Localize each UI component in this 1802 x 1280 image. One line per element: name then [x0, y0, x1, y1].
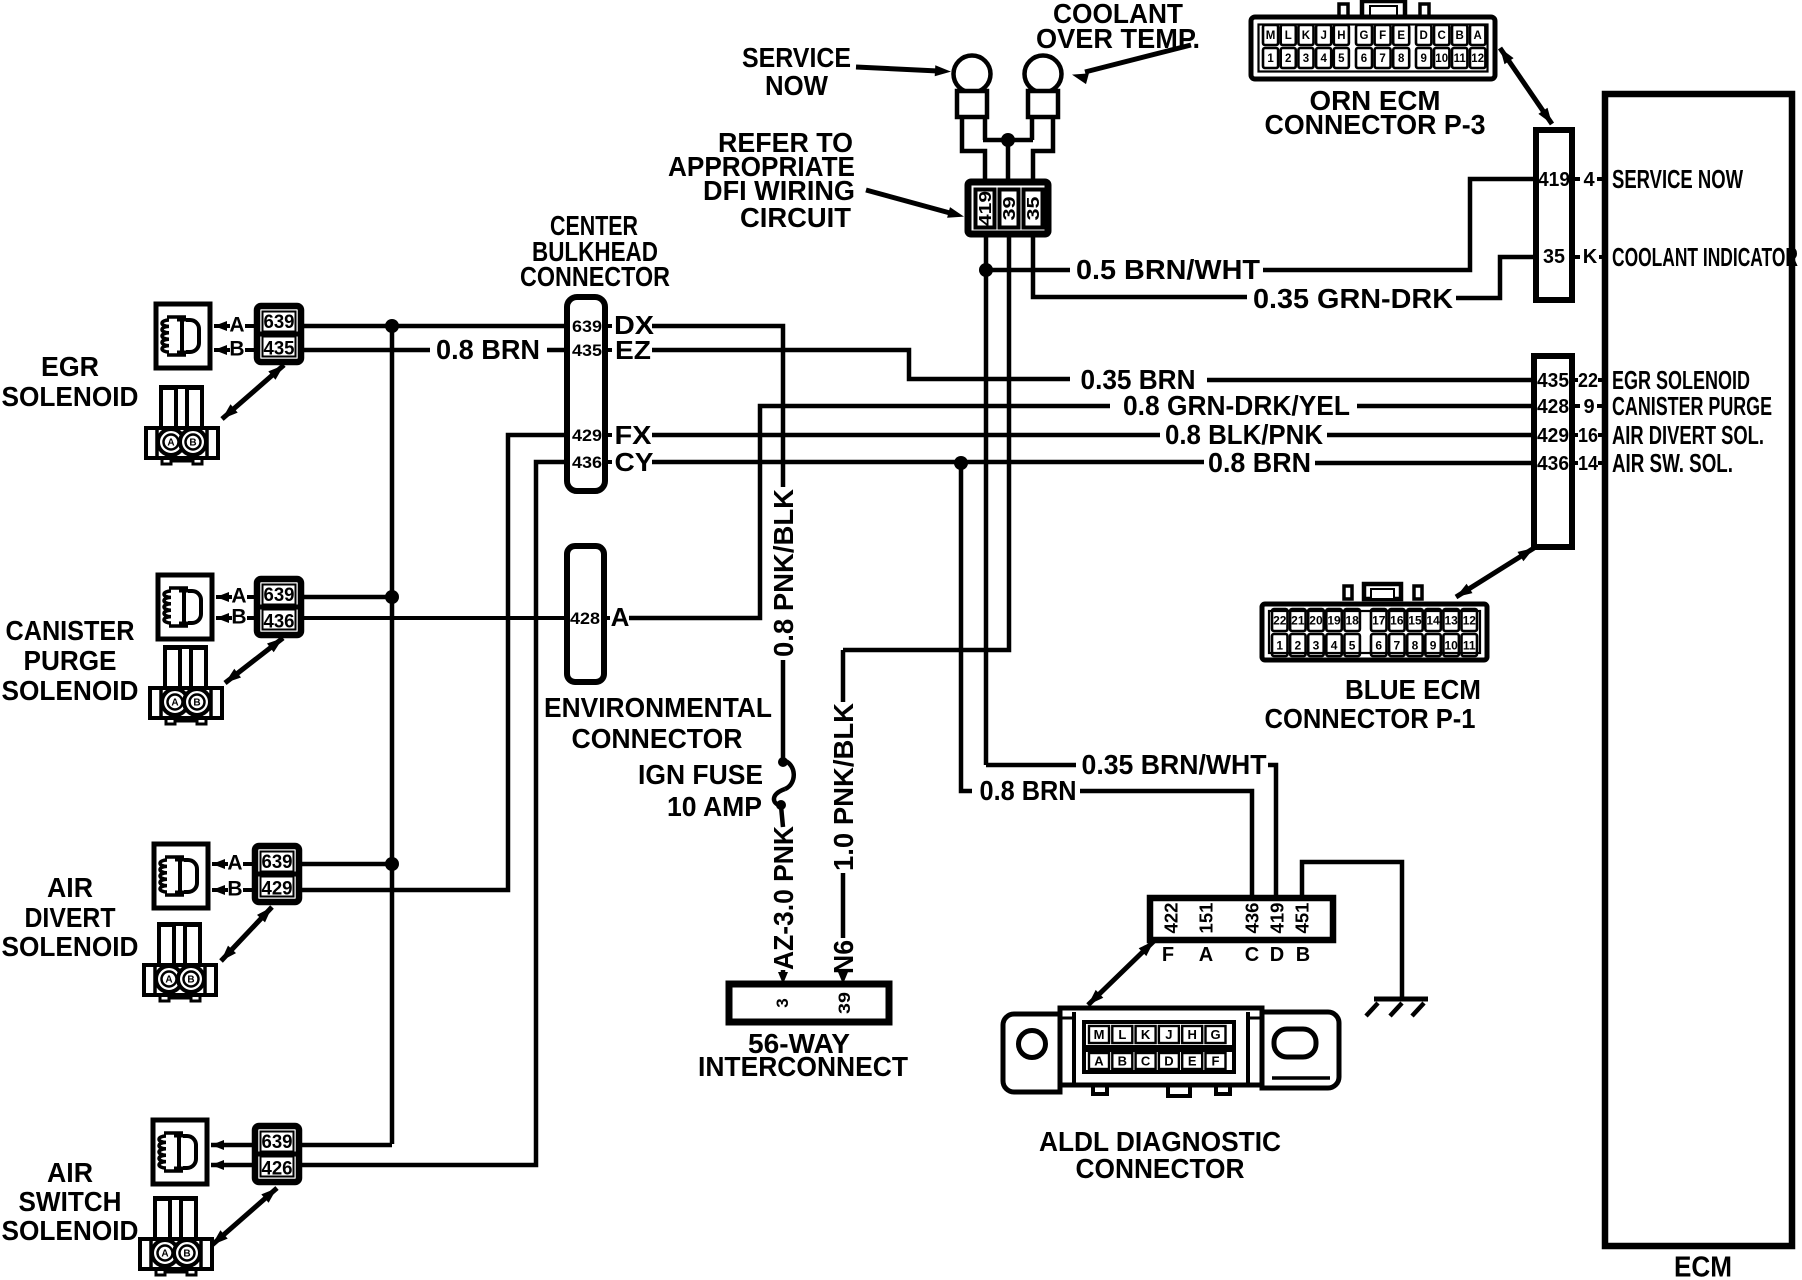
node junction CY to ALDL: [954, 456, 968, 470]
svg-text:B: B: [1296, 944, 1310, 966]
svg-text:21: 21: [1291, 613, 1305, 627]
svg-text:419: 419: [975, 191, 995, 226]
svg-text:1.0 PNK/BLK: 1.0 PNK/BLK: [828, 703, 859, 871]
pin box EGR solenoid circuits 639/435: [257, 306, 301, 362]
label CENTER BULKHEAD CONNECTOR: [520, 210, 670, 292]
svg-text:B: B: [1456, 30, 1464, 42]
arrow P-1 to ECM strip: [1456, 548, 1534, 597]
svg-text:0.35 GRN-DRK: 0.35 GRN-DRK: [1253, 283, 1453, 314]
svg-text:EGR: EGR: [41, 351, 99, 382]
environmental net name A: [604, 616, 610, 620]
svg-text:E: E: [1397, 30, 1405, 42]
ECM connector strip P-3 side: [1536, 130, 1572, 300]
svg-text:IGN FUSE: IGN FUSE: [638, 759, 763, 790]
svg-text:A: A: [161, 1249, 168, 1260]
pin box canister purge solenoid circuits 639/436: [257, 579, 301, 635]
svg-text:17: 17: [1372, 613, 1386, 627]
svg-text:451: 451: [1292, 903, 1312, 934]
svg-text:H: H: [1188, 1027, 1197, 1042]
svg-text:639: 639: [262, 852, 293, 873]
svg-text:F: F: [1212, 1054, 1220, 1069]
svg-text:428: 428: [570, 609, 600, 628]
svg-text:L: L: [1285, 30, 1292, 42]
ECM connector strip P-1 side: [1534, 356, 1572, 547]
terminal arrows canister purge solenoid: [216, 592, 229, 623]
svg-text:1: 1: [1276, 638, 1283, 652]
fuse IGN FUSE 10 AMP symbol: [774, 757, 794, 810]
pin 16 dash and label: [1572, 433, 1578, 437]
connector 56-way interconnect: [729, 984, 889, 1022]
svg-text:5: 5: [1338, 53, 1345, 65]
wire CY junction down to 0.8 BRN ALDL: [961, 463, 972, 791]
svg-text:CONNECTOR P-3: CONNECTOR P-3: [1265, 109, 1486, 140]
svg-text:K: K: [1302, 30, 1311, 42]
solenoid coil EGR solenoid: [156, 304, 210, 368]
svg-text:CONNECTOR: CONNECTOR: [1076, 1153, 1245, 1184]
connector P-3 pin numbers 1-5: [1263, 48, 1278, 68]
pin 4 dash and label: [1572, 177, 1580, 181]
svg-text:SOLENOID: SOLENOID: [2, 675, 139, 706]
svg-text:M: M: [1094, 1027, 1105, 1042]
svg-text:436: 436: [1537, 453, 1569, 475]
connector P-1 pin numbers 17-12: [1371, 609, 1387, 631]
pin box air divert solenoid circuits 639/429: [255, 846, 299, 902]
svg-text:FX: FX: [615, 420, 653, 450]
wire 0.35 BRN/WHT to ALDL pin D: [1268, 765, 1276, 899]
wire coil B to pin box air divert solenoid: [212, 888, 228, 892]
wire 35 from DFI connector to 0.35 GRN-DRK: [1033, 234, 1247, 297]
svg-text:BLUE ECM: BLUE ECM: [1345, 674, 1481, 705]
wire air divert A 639 to bus: [299, 862, 392, 867]
wire coil B to pin box EGR solenoid: [214, 348, 230, 352]
svg-text:H: H: [1337, 30, 1345, 42]
svg-text:2: 2: [1295, 638, 1302, 652]
svg-text:J: J: [1165, 1027, 1172, 1042]
bulkhead net name DX: [605, 324, 612, 328]
connector front view air switch solenoid: [140, 1198, 212, 1275]
svg-text:8: 8: [1412, 638, 1419, 652]
connector front view EGR solenoid: [146, 387, 218, 464]
svg-text:SOLENOID: SOLENOID: [2, 931, 139, 962]
svg-text:9: 9: [1420, 53, 1426, 65]
svg-text:14: 14: [1426, 613, 1440, 627]
connector P-1 pin numbers 6-11: [1371, 634, 1387, 656]
svg-text:4: 4: [1331, 638, 1338, 652]
svg-text:A: A: [1474, 30, 1482, 42]
wire coil A to pin box EGR solenoid: [214, 324, 230, 328]
wire air switch A 639 to bus: [299, 1143, 392, 1148]
pin 9 dash and label: [1572, 404, 1580, 408]
wire air switch B 426 to CY bus: [299, 462, 567, 1165]
wire junction to pin 39: [1006, 140, 1011, 184]
arrow connector callout EGR solenoid: [222, 365, 284, 419]
svg-text:419: 419: [1538, 169, 1570, 191]
ALDL letter row M L K J H G: [1084, 1022, 1234, 1047]
svg-text:39: 39: [999, 196, 1019, 220]
svg-text:436: 436: [1242, 903, 1262, 934]
svg-text:428: 428: [1537, 396, 1569, 418]
svg-text:639: 639: [262, 1132, 293, 1153]
node junction 0.5 BRN/WHT tap: [979, 263, 993, 277]
wire N6 into 56-way pin 39: [841, 974, 846, 976]
wire canister purge A 639 to bus: [301, 595, 392, 600]
wire coil to pin box air switch solenoid: [211, 1143, 255, 1148]
svg-text:CONNECTOR: CONNECTOR: [520, 261, 670, 292]
label ENVIRONMENTAL CONNECTOR: [544, 692, 772, 754]
svg-text:0.8 BRN: 0.8 BRN: [980, 775, 1077, 806]
svg-text:0.8 PNK/BLK: 0.8 PNK/BLK: [768, 489, 799, 657]
label air divert solenoid: [2, 872, 139, 962]
node lamp common junction: [1001, 133, 1015, 147]
connector front view air divert solenoid: [144, 924, 216, 1001]
wire EZ to 0.35 BRN to ECM pin 435: [652, 350, 1534, 380]
svg-text:A: A: [611, 602, 630, 632]
svg-text:L: L: [1118, 1027, 1126, 1042]
wire lamp2 inner terminal: [1030, 117, 1035, 140]
svg-text:C: C: [1141, 1054, 1151, 1069]
label canister purge solenoid: [2, 615, 139, 706]
svg-text:INTERCONNECT: INTERCONNECT: [698, 1051, 908, 1082]
svg-text:14: 14: [1578, 453, 1599, 475]
svg-text:16: 16: [1578, 425, 1598, 447]
arrow COOLANT callout: [1085, 45, 1191, 72]
svg-text:A: A: [231, 585, 246, 608]
svg-text:10: 10: [1444, 638, 1458, 652]
wire 1.0 PNK/BLK middle segment: [841, 873, 846, 938]
connector P-3 pin letters M L K J H: [1263, 25, 1278, 45]
wire lamp1 outer terminal to pin 419: [962, 117, 985, 184]
svg-text:9: 9: [1583, 396, 1594, 418]
svg-text:15: 15: [1408, 613, 1422, 627]
wire coil A to pin box air divert solenoid: [212, 862, 228, 866]
wire 0.8 PNK/BLK below label to fuse: [781, 660, 786, 760]
bulkhead net name FX: [605, 433, 612, 437]
svg-text:12: 12: [1471, 53, 1484, 65]
svg-text:A: A: [1094, 1054, 1104, 1069]
svg-text:CY: CY: [615, 447, 654, 477]
svg-text:DIVERT: DIVERT: [25, 902, 116, 933]
svg-text:AIR SW. SOL.: AIR SW. SOL.: [1612, 448, 1733, 478]
pin box air switch solenoid circuits 639/426: [255, 1126, 299, 1182]
svg-text:19: 19: [1327, 613, 1341, 627]
svg-text:K: K: [1583, 246, 1598, 268]
arrow connector callout air divert solenoid: [221, 907, 272, 961]
svg-text:10 AMP: 10 AMP: [667, 791, 762, 822]
svg-text:ENVIRONMENTAL: ENVIRONMENTAL: [544, 692, 772, 723]
svg-text:6: 6: [1375, 638, 1382, 652]
label IGN FUSE 10 AMP: [638, 759, 763, 822]
svg-text:0.8 BRN: 0.8 BRN: [436, 334, 540, 365]
connector front view canister purge solenoid: [150, 647, 222, 724]
arrow SERVICE NOW callout: [856, 67, 938, 71]
svg-text:435: 435: [264, 339, 295, 360]
svg-text:D: D: [1164, 1054, 1173, 1069]
connector DFI pigtail 419-39-35: [968, 182, 1048, 234]
wire coil B to pin box canister purge solenoid: [216, 616, 232, 620]
pin 14 dash and label: [1572, 461, 1578, 465]
svg-text:ECM: ECM: [1674, 1251, 1732, 1280]
svg-text:AIR DIVERT SOL.: AIR DIVERT SOL.: [1612, 420, 1764, 450]
svg-text:M: M: [1266, 30, 1276, 42]
svg-text:4: 4: [1320, 53, 1327, 65]
connector ALDL pin strip: [1150, 898, 1333, 940]
wire ALDL pin B 451 to ground: [1302, 862, 1402, 997]
wire 419 from DFI connector down to 0.35 BRN/WHT corner: [984, 234, 989, 765]
bulkhead net name EZ: [605, 348, 612, 352]
connector ALDL diagnostic housing: [1003, 1008, 1339, 1096]
svg-text:G: G: [1210, 1027, 1220, 1042]
svg-text:A: A: [171, 698, 178, 709]
svg-text:D: D: [1270, 944, 1284, 966]
svg-text:EZ: EZ: [615, 335, 651, 365]
terminal arrows EGR solenoid: [214, 321, 227, 355]
svg-text:A: A: [165, 975, 172, 986]
svg-text:E: E: [1188, 1054, 1197, 1069]
arrow connector callout air switch solenoid: [212, 1188, 277, 1245]
svg-text:639: 639: [264, 312, 295, 333]
label air switch solenoid: [2, 1157, 139, 1246]
wire air divert B 429 to FX bus: [299, 435, 567, 890]
svg-text:K: K: [1141, 1027, 1151, 1042]
svg-text:422: 422: [1161, 903, 1181, 934]
svg-text:3: 3: [1303, 53, 1309, 65]
svg-text:COOLANT INDICATOR: COOLANT INDICATOR: [1612, 242, 1798, 272]
node 639 junction EGR: [385, 319, 399, 333]
svg-text:AZ-3.0 PNK: AZ-3.0 PNK: [768, 826, 799, 970]
svg-text:CONNECTOR: CONNECTOR: [572, 723, 743, 754]
connector P-3 pin letters G F E: [1356, 25, 1372, 45]
svg-text:12: 12: [1463, 613, 1477, 627]
wire 39 from DFI connector down and left: [843, 234, 1009, 650]
ECM box: [1605, 94, 1792, 1246]
wire 639 bus vertical: [390, 326, 395, 1144]
svg-text:436: 436: [264, 612, 295, 633]
svg-text:CANISTER PURGE: CANISTER PURGE: [1612, 391, 1772, 421]
connector BLUE ECM P-1: [1262, 584, 1487, 660]
svg-text:SOLENOID: SOLENOID: [2, 381, 139, 412]
connector P-1 pin numbers 22-18: [1272, 609, 1288, 631]
svg-text:SERVICE NOW: SERVICE NOW: [1612, 164, 1743, 194]
svg-text:429: 429: [1537, 425, 1569, 447]
svg-text:8: 8: [1398, 53, 1405, 65]
terminal arrows air switch solenoid: [211, 1140, 224, 1170]
wire coil A to pin box canister purge solenoid: [216, 595, 232, 599]
svg-text:429: 429: [262, 879, 293, 900]
wire 419 corner to 0.35 BRN/WHT label: [986, 763, 1076, 768]
svg-text:0.5 BRN/WHT: 0.5 BRN/WHT: [1076, 254, 1260, 285]
solenoid coil air switch solenoid: [153, 1120, 207, 1184]
svg-text:AIR: AIR: [47, 1157, 93, 1188]
svg-text:35: 35: [1023, 196, 1043, 220]
svg-text:426: 426: [262, 1159, 293, 1180]
svg-text:639: 639: [572, 317, 602, 336]
svg-text:G: G: [1360, 30, 1369, 42]
connector P-1 pin numbers 1-5: [1272, 634, 1288, 656]
svg-text:SERVICE: SERVICE: [742, 42, 851, 73]
svg-text:J: J: [1320, 30, 1326, 42]
node 639 junction air divert: [385, 857, 399, 871]
svg-text:F: F: [1379, 30, 1386, 42]
svg-text:CIRCUIT: CIRCUIT: [740, 202, 851, 233]
svg-text:SOLENOID: SOLENOID: [2, 1215, 139, 1246]
connector ORN ECM P-3: [1251, 1, 1495, 79]
svg-text:639: 639: [264, 585, 295, 606]
svg-text:18: 18: [1345, 613, 1359, 627]
svg-text:A: A: [229, 314, 244, 337]
svg-text:A: A: [167, 438, 174, 449]
wire A to 0.8 GRN-DRK/YEL to ECM pin 428: [629, 406, 1534, 618]
svg-text:B: B: [229, 338, 244, 361]
svg-text:0.8 BLK/PNK: 0.8 BLK/PNK: [1165, 419, 1323, 450]
connector P-3 pin letters D C B A: [1416, 25, 1431, 45]
svg-text:B: B: [189, 438, 196, 449]
svg-text:436: 436: [572, 453, 602, 472]
arrow P-3 to ECM strip: [1500, 48, 1552, 124]
ground symbol: [1366, 999, 1428, 1016]
svg-text:N6: N6: [828, 940, 859, 974]
connector P-3 pin numbers 9-12: [1416, 48, 1431, 68]
svg-text:7: 7: [1394, 638, 1401, 652]
svg-text:D: D: [1420, 30, 1428, 42]
svg-text:22: 22: [1273, 613, 1287, 627]
svg-text:151: 151: [1196, 903, 1216, 934]
ALDL letter row A B C D E F: [1084, 1050, 1234, 1072]
wire 1.0 PNK/BLK upper segment: [841, 650, 846, 702]
svg-text:39: 39: [835, 992, 854, 1014]
connector environmental: [567, 546, 604, 682]
wire canister purge B 436 to environmental connector: [301, 616, 567, 620]
svg-text:0.35 BRN/WHT: 0.35 BRN/WHT: [1082, 749, 1267, 780]
svg-text:B: B: [231, 606, 246, 629]
wire 0.35 GRN-DRK to ECM pin 35: [1456, 257, 1536, 298]
svg-text:F: F: [1162, 944, 1174, 966]
svg-text:35: 35: [1543, 246, 1565, 268]
svg-text:B: B: [193, 698, 200, 709]
svg-text:0.8 BRN: 0.8 BRN: [1208, 447, 1311, 478]
node 639 junction canister purge: [385, 590, 399, 604]
wire 0.5 BRN/WHT to ECM pin 419: [986, 179, 1536, 270]
wire AZ-3.0 PNK into 56-way pin 3: [781, 970, 786, 976]
wire fuse to AZ-3.0 PNK label: [781, 806, 783, 827]
svg-text:435: 435: [1537, 370, 1569, 392]
wire lamp1 inner terminal to lamp bus: [983, 117, 988, 140]
wire EGR A 639 to bulkhead DX: [301, 324, 567, 329]
label EGR solenoid: [2, 351, 139, 412]
svg-text:7: 7: [1379, 53, 1385, 65]
svg-text:SWITCH: SWITCH: [19, 1186, 122, 1217]
svg-text:16: 16: [1390, 613, 1404, 627]
svg-text:0.8 GRN-DRK/YEL: 0.8 GRN-DRK/YEL: [1123, 390, 1350, 421]
svg-text:4: 4: [1583, 169, 1595, 191]
label ALDL DIAGNOSTIC CONNECTOR: [1039, 1126, 1281, 1184]
svg-text:PURGE: PURGE: [24, 645, 117, 676]
svg-text:3: 3: [773, 998, 792, 1007]
svg-text:A: A: [1199, 944, 1213, 966]
svg-text:5: 5: [1349, 638, 1356, 652]
svg-text:9: 9: [1430, 638, 1437, 652]
svg-text:13: 13: [1444, 613, 1458, 627]
svg-text:429: 429: [572, 426, 602, 445]
svg-text:NOW: NOW: [765, 70, 829, 101]
svg-text:1: 1: [1267, 53, 1274, 65]
connector center bulkhead: [567, 297, 605, 491]
svg-text:11: 11: [1454, 53, 1467, 65]
pin 22 dash and label: [1572, 378, 1578, 382]
svg-text:22: 22: [1578, 370, 1598, 392]
svg-text:B: B: [187, 975, 194, 986]
wire lamp2 outer terminal to pin 35: [1033, 117, 1053, 184]
wire 0.8 BRN to ALDL pin C: [1080, 791, 1252, 899]
arrow ALDL callout: [1088, 941, 1154, 1005]
svg-text:11: 11: [1463, 638, 1476, 652]
arrow DFI circuit callout: [866, 190, 950, 213]
svg-text:435: 435: [572, 341, 602, 360]
lamp COOLANT OVER TEMP indicator: [1025, 56, 1062, 118]
solenoid coil air divert solenoid: [154, 844, 208, 908]
svg-text:419: 419: [1267, 903, 1287, 934]
terminal arrows air divert solenoid: [212, 859, 225, 895]
svg-text:3: 3: [1313, 638, 1320, 652]
svg-text:10: 10: [1435, 53, 1448, 65]
wire CY to 0.8 BRN to ECM pin 436: [652, 462, 1534, 463]
svg-text:B: B: [183, 1249, 190, 1260]
svg-text:CANISTER: CANISTER: [6, 615, 135, 646]
wire DX 639 to ignition feed 0.8 PNK/BLK: [652, 326, 783, 487]
label 56-WAY INTERCONNECT: [698, 1028, 908, 1082]
svg-text:C: C: [1245, 944, 1259, 966]
lamp SERVICE NOW indicator: [954, 56, 991, 118]
svg-text:A: A: [227, 852, 242, 875]
svg-text:AIR: AIR: [47, 872, 93, 903]
wire EGR B 435 to bulkhead EZ: [301, 348, 567, 353]
svg-text:B: B: [227, 878, 242, 901]
svg-text:6: 6: [1361, 53, 1367, 65]
wire FX to 0.8 BLK/PNK to ECM pin 429: [652, 433, 1534, 438]
bulkhead net name CY: [605, 460, 612, 464]
arrow connector callout canister purge solenoid: [225, 638, 283, 683]
svg-text:B: B: [1118, 1054, 1127, 1069]
solenoid coil canister purge solenoid: [158, 575, 212, 639]
svg-text:20: 20: [1309, 613, 1323, 627]
svg-text:CONNECTOR P-1: CONNECTOR P-1: [1265, 703, 1476, 734]
wire lamp bus: [983, 138, 1033, 143]
pin K dash and label: [1572, 255, 1580, 259]
svg-text:C: C: [1438, 30, 1446, 42]
connector P-3 pin numbers 6-8: [1356, 48, 1372, 68]
svg-text:2: 2: [1285, 53, 1291, 65]
